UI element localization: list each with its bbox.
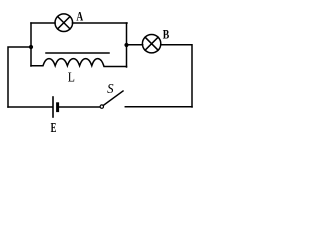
- svg-text:S: S: [107, 80, 114, 96]
- svg-text:E: E: [51, 120, 57, 136]
- svg-text:L: L: [68, 68, 75, 84]
- svg-text:B: B: [163, 28, 170, 42]
- svg-text:A: A: [76, 10, 83, 24]
